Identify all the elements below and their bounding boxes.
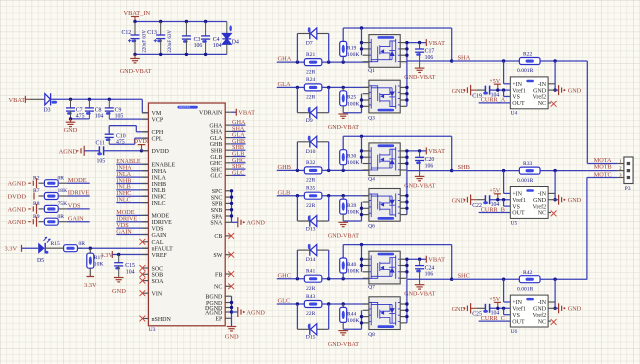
ground GND-VBAT bbox=[338, 221, 348, 223]
resistor R25 100K bbox=[342, 87, 344, 90]
resistor R33 0.001R bbox=[519, 167, 540, 174]
svg-text:SNA: SNA bbox=[210, 221, 223, 227]
svg-text:0.001R: 0.001R bbox=[517, 68, 534, 74]
wire SHA bbox=[452, 60, 588, 62]
pin bbox=[363, 169, 369, 171]
net label SHC bbox=[232, 168, 246, 170]
svg-text:D14: D14 bbox=[306, 257, 316, 263]
no connect NC bbox=[548, 212, 551, 214]
pin INHC bbox=[142, 195, 148, 197]
pin bbox=[363, 322, 369, 324]
svg-text:VDRAIN: VDRAIN bbox=[199, 111, 223, 117]
pin bbox=[400, 163, 407, 165]
pin CPL bbox=[142, 137, 148, 139]
junction bbox=[450, 59, 453, 62]
wire bbox=[112, 254, 148, 256]
svg-text:Q1: Q1 bbox=[368, 68, 375, 74]
svg-text:GND-VBAT: GND-VBAT bbox=[404, 75, 435, 81]
wire bbox=[25, 98, 29, 100]
pin bbox=[400, 309, 407, 311]
wire to VBAT bbox=[407, 258, 426, 260]
svg-text:105: 105 bbox=[97, 159, 106, 165]
junction bbox=[230, 310, 233, 313]
pin VIN bbox=[142, 292, 148, 294]
pin bbox=[400, 265, 407, 267]
resistor R42 0.001R bbox=[519, 276, 540, 283]
svg-text:C9: C9 bbox=[115, 107, 122, 113]
no connect NC bbox=[548, 320, 551, 322]
ground GND-VBAT bbox=[338, 330, 348, 332]
pin bbox=[363, 54, 369, 56]
wire top rail bbox=[343, 27, 452, 29]
resistor R32 22R bbox=[304, 167, 322, 174]
svg-text:104: 104 bbox=[126, 269, 135, 275]
svg-text:+IN: +IN bbox=[512, 192, 522, 198]
wire VS bbox=[503, 200, 505, 206]
pin GLB bbox=[225, 156, 231, 158]
pin bbox=[363, 42, 369, 44]
pin 1 bbox=[618, 163, 624, 165]
svg-text:100K: 100K bbox=[347, 210, 359, 216]
svg-text:D10: D10 bbox=[306, 149, 316, 155]
pin GLC bbox=[225, 174, 231, 176]
svg-text:AGND: AGND bbox=[59, 148, 78, 155]
pin DGND bbox=[225, 307, 231, 309]
junction bbox=[296, 194, 299, 197]
wire SHA bbox=[407, 60, 452, 62]
ground GND-VBAT bbox=[338, 113, 348, 115]
junction bbox=[230, 214, 233, 217]
svg-text:R35: R35 bbox=[306, 186, 316, 192]
pin bbox=[363, 303, 369, 305]
junction bbox=[450, 169, 453, 172]
resistor R9 0R bbox=[39, 221, 44, 223]
svg-text:D15: D15 bbox=[306, 335, 316, 341]
junction bbox=[296, 302, 299, 305]
wire bbox=[85, 150, 100, 152]
svg-text:VDS: VDS bbox=[152, 226, 164, 232]
pin bbox=[363, 195, 369, 197]
svg-text:75K: 75K bbox=[58, 201, 68, 207]
wire MOTA bbox=[586, 61, 588, 164]
pin BGND bbox=[225, 295, 231, 297]
wire -IN bbox=[554, 171, 556, 200]
junction bbox=[296, 169, 299, 172]
svg-text:GND: GND bbox=[568, 197, 582, 204]
junction bbox=[230, 195, 233, 198]
pin VREF bbox=[142, 254, 148, 256]
pin bbox=[363, 93, 369, 95]
resistor R22 0.001R bbox=[519, 58, 540, 65]
wire -IN bbox=[554, 279, 556, 308]
ground GND bbox=[114, 277, 124, 279]
wire source column bbox=[343, 220, 361, 222]
resistor R44 100K bbox=[342, 304, 344, 307]
svg-text:R8: R8 bbox=[33, 201, 40, 207]
pin INLC bbox=[142, 202, 148, 204]
resistor R24 22R bbox=[304, 84, 322, 91]
svg-text:R19: R19 bbox=[347, 45, 357, 51]
svg-text:Q4: Q4 bbox=[368, 176, 375, 182]
svg-text:OUT: OUT bbox=[512, 319, 525, 325]
svg-text:Vref1: Vref1 bbox=[512, 197, 526, 204]
svg-text:R24: R24 bbox=[306, 77, 316, 83]
svg-text:C17: C17 bbox=[425, 49, 435, 55]
wire to VM pin bbox=[141, 99, 143, 113]
svg-text:C24: C24 bbox=[425, 265, 435, 271]
capacitor C17 106 bbox=[419, 43, 421, 49]
resistor R2 0R bbox=[39, 182, 44, 184]
resistor R30 100K bbox=[342, 136, 344, 149]
pin INLA bbox=[142, 176, 148, 178]
svg-text:22R: 22R bbox=[306, 203, 316, 209]
junction bbox=[296, 277, 299, 280]
wire Vref1 bbox=[489, 199, 510, 201]
svg-text:0.001R: 0.001R bbox=[517, 178, 534, 184]
pin bbox=[363, 207, 369, 209]
net label GHA bbox=[232, 124, 246, 126]
pin bbox=[400, 201, 407, 203]
svg-text:Q6: Q6 bbox=[368, 224, 375, 230]
svg-text:VBAT: VBAT bbox=[238, 110, 255, 117]
svg-text:Vref2: Vref2 bbox=[532, 203, 546, 210]
junction bbox=[553, 307, 556, 310]
svg-text:106: 106 bbox=[194, 43, 203, 49]
svg-text:GND: GND bbox=[225, 334, 239, 341]
wire to VBAT bbox=[407, 150, 426, 152]
svg-text:GND-VBAT: GND-VBAT bbox=[328, 234, 359, 240]
svg-text:0R: 0R bbox=[58, 175, 65, 181]
ground GND bbox=[70, 119, 72, 122]
svg-text:220uF 63V: 220uF 63V bbox=[168, 30, 173, 53]
resistor R43 22R bbox=[304, 301, 322, 308]
power port AGND bbox=[232, 311, 238, 313]
svg-text:Q7: Q7 bbox=[368, 285, 375, 291]
pin CPH bbox=[142, 131, 148, 133]
junction bbox=[496, 198, 499, 201]
pin EP bbox=[225, 317, 231, 319]
wire GND pin bbox=[548, 199, 555, 201]
wire +IN bbox=[503, 171, 505, 194]
wire drain column bbox=[406, 151, 408, 170]
svg-text:VS: VS bbox=[512, 95, 520, 101]
pin bbox=[363, 99, 369, 101]
svg-text:C4: C4 bbox=[213, 37, 220, 43]
pin bbox=[400, 61, 407, 63]
svg-text:R9: R9 bbox=[33, 214, 40, 220]
svg-text:GLA: GLA bbox=[210, 136, 223, 142]
pin 3 bbox=[618, 177, 624, 179]
net label SHA bbox=[232, 130, 246, 132]
pin SPC bbox=[225, 190, 231, 192]
svg-text:-IN: -IN bbox=[538, 82, 547, 88]
svg-text:100K: 100K bbox=[347, 160, 359, 166]
resistor R39 100K bbox=[342, 196, 344, 199]
svg-text:AGND: AGND bbox=[246, 220, 265, 227]
svg-text:Vref1: Vref1 bbox=[512, 306, 526, 313]
net label SHB bbox=[232, 149, 246, 151]
svg-text:22R: 22R bbox=[306, 311, 316, 317]
capacitor C12 bbox=[134, 22, 136, 36]
connector P3 bbox=[624, 157, 633, 184]
svg-text:SNC: SNC bbox=[211, 195, 223, 201]
resistor R17 10K bbox=[89, 248, 91, 253]
pin AGND bbox=[225, 311, 231, 313]
svg-text:104: 104 bbox=[95, 114, 104, 120]
svg-text:CPH: CPH bbox=[152, 130, 164, 136]
pin SHB bbox=[225, 149, 231, 151]
svg-text:AGND: AGND bbox=[8, 219, 27, 226]
svg-text:INLB: INLB bbox=[152, 188, 166, 194]
op-amp U5 bbox=[510, 187, 548, 219]
svg-text:C8: C8 bbox=[95, 107, 102, 113]
svg-text:GND-VBAT: GND-VBAT bbox=[404, 183, 435, 189]
svg-text:MOTC: MOTC bbox=[594, 171, 612, 178]
resistor R21 22R bbox=[304, 59, 322, 66]
svg-text:GHB: GHB bbox=[210, 142, 223, 148]
pin bbox=[363, 214, 369, 216]
IC U3 DRV8305 bbox=[148, 103, 225, 326]
wire GND pin bbox=[548, 307, 555, 309]
pin SNC bbox=[225, 196, 231, 198]
svg-text:C15: C15 bbox=[125, 263, 135, 269]
junction bbox=[296, 86, 299, 89]
pin INLB bbox=[142, 189, 148, 191]
pin GHA bbox=[225, 124, 231, 126]
junction bbox=[230, 306, 233, 309]
capacitor C19 104 bbox=[484, 86, 486, 95]
wire top rail bbox=[343, 135, 452, 137]
svg-text:106: 106 bbox=[425, 163, 434, 169]
svg-text:C10: C10 bbox=[116, 133, 126, 139]
svg-text:INHB: INHB bbox=[152, 182, 167, 188]
resistor R15 0R bbox=[45, 247, 63, 249]
svg-text:SHC: SHC bbox=[211, 167, 223, 173]
svg-text:MODE: MODE bbox=[152, 214, 170, 220]
svg-text:SOB: SOB bbox=[152, 273, 164, 279]
wire SHB bbox=[452, 170, 588, 172]
pin DVDD bbox=[142, 150, 148, 152]
pin GHB bbox=[225, 143, 231, 145]
junction bbox=[360, 135, 363, 138]
svg-text:Vref2: Vref2 bbox=[532, 312, 546, 319]
svg-text:NC: NC bbox=[214, 285, 222, 291]
svg-text:22R: 22R bbox=[306, 69, 316, 75]
pin ENABLE bbox=[142, 163, 148, 165]
wire bbox=[22, 247, 39, 249]
pin nFAULT bbox=[142, 247, 148, 249]
svg-text:GLC: GLC bbox=[232, 169, 244, 176]
pin FB bbox=[225, 273, 231, 275]
pin SHA bbox=[225, 130, 231, 132]
svg-text:GAIN: GAIN bbox=[152, 233, 168, 239]
svg-text:DVDD: DVDD bbox=[8, 193, 27, 200]
svg-text:AGND: AGND bbox=[8, 181, 27, 188]
svg-text:D9: D9 bbox=[306, 118, 313, 124]
svg-text:VCP: VCP bbox=[152, 117, 164, 123]
resistor R41 22R bbox=[304, 275, 322, 282]
svg-text:C7: C7 bbox=[76, 107, 83, 113]
junction bbox=[69, 117, 72, 120]
svg-text:100K: 100K bbox=[347, 269, 359, 275]
wire drain column bbox=[406, 171, 408, 215]
svg-text:VS: VS bbox=[512, 204, 520, 210]
svg-text:GND: GND bbox=[568, 87, 582, 94]
svg-text:R41: R41 bbox=[306, 269, 316, 275]
no connect NC bbox=[548, 102, 551, 104]
svg-text:U3: U3 bbox=[149, 327, 156, 333]
svg-text:SNB: SNB bbox=[211, 208, 223, 214]
svg-text:nSHDN: nSHDN bbox=[152, 317, 172, 323]
svg-text:P3: P3 bbox=[625, 186, 631, 192]
svg-text:-IN: -IN bbox=[538, 300, 547, 306]
pin nSHDN bbox=[142, 318, 148, 320]
svg-text:SW: SW bbox=[213, 253, 222, 259]
svg-text:100K: 100K bbox=[347, 318, 359, 324]
pin bbox=[400, 322, 407, 324]
power port 3.3V bbox=[87, 276, 95, 278]
resistor R35 22R bbox=[304, 192, 322, 199]
pin bbox=[400, 258, 407, 260]
power port GND bbox=[558, 303, 560, 313]
pin bbox=[400, 156, 407, 158]
svg-text:VIN: VIN bbox=[152, 292, 163, 298]
svg-text:D13: D13 bbox=[306, 226, 316, 232]
resistor R8 75K bbox=[39, 208, 44, 210]
wire top rail bbox=[135, 21, 227, 23]
svg-text:SHB: SHB bbox=[211, 149, 223, 155]
svg-text:U6: U6 bbox=[511, 329, 518, 335]
pin SNA bbox=[225, 221, 231, 223]
svg-text:475: 475 bbox=[116, 140, 125, 146]
pin bbox=[363, 271, 369, 273]
svg-text:SHC: SHC bbox=[458, 273, 470, 280]
svg-text:C13: C13 bbox=[147, 30, 157, 36]
svg-text:R44: R44 bbox=[347, 311, 357, 317]
capacitor C4 bbox=[205, 22, 207, 36]
svg-text:100K: 100K bbox=[347, 101, 359, 107]
svg-text:VBAT: VBAT bbox=[9, 97, 26, 104]
svg-text:D4: D4 bbox=[232, 40, 239, 46]
pin VDRAIN bbox=[225, 111, 231, 113]
power port AGND bbox=[232, 221, 238, 223]
svg-text:VBAT: VBAT bbox=[428, 148, 445, 155]
svg-text:22R: 22R bbox=[306, 286, 316, 292]
pin bbox=[363, 156, 369, 158]
junction bbox=[502, 169, 505, 172]
pin bbox=[400, 99, 407, 101]
ground GND-VBAT bbox=[415, 284, 425, 286]
svg-text:+IN: +IN bbox=[512, 82, 522, 88]
svg-text:VS: VS bbox=[512, 313, 520, 319]
pin bbox=[400, 214, 407, 216]
junction bbox=[553, 88, 556, 91]
svg-text:AGND: AGND bbox=[246, 309, 265, 316]
capacitor C9 bbox=[108, 99, 110, 108]
svg-text:DVDD: DVDD bbox=[152, 149, 170, 155]
pin SHC bbox=[225, 168, 231, 170]
pin GAIN bbox=[142, 234, 148, 236]
wire drain column bbox=[406, 279, 408, 323]
power port GND bbox=[558, 85, 560, 95]
svg-text:GND: GND bbox=[533, 307, 547, 313]
wire -IN bbox=[554, 61, 556, 90]
junction bbox=[496, 88, 499, 91]
wire GND pin bbox=[548, 89, 555, 91]
svg-text:R22: R22 bbox=[523, 52, 533, 58]
svg-text:R2: R2 bbox=[33, 175, 40, 181]
resistor R19 100K bbox=[342, 28, 344, 41]
capacitor C22 104 bbox=[484, 195, 486, 204]
wire bbox=[71, 118, 90, 120]
svg-text:D5: D5 bbox=[37, 258, 44, 264]
wire C9 to VCP pin bbox=[109, 118, 148, 120]
capacitor C15 bbox=[118, 255, 120, 263]
svg-text:IDRIVE: IDRIVE bbox=[152, 220, 173, 226]
wire +IN bbox=[503, 279, 505, 302]
pin SOC bbox=[142, 267, 148, 269]
svg-text:106: 106 bbox=[425, 272, 434, 278]
wire source column bbox=[343, 328, 361, 330]
wire MOTC bbox=[586, 178, 588, 280]
pin bbox=[400, 42, 407, 44]
junction bbox=[230, 301, 233, 304]
svg-text:0.001R: 0.001R bbox=[517, 286, 534, 292]
net label GHC bbox=[232, 162, 246, 164]
transistor Q1 bbox=[369, 35, 400, 68]
svg-text:U5: U5 bbox=[511, 220, 518, 226]
svg-text:GND-VBAT: GND-VBAT bbox=[328, 342, 359, 348]
pin bbox=[400, 169, 407, 171]
wire Vref1 bbox=[489, 89, 510, 91]
pin bbox=[363, 277, 369, 279]
junction bbox=[117, 253, 120, 256]
svg-text:EP: EP bbox=[215, 317, 223, 323]
pin bbox=[363, 61, 369, 63]
svg-text:CB: CB bbox=[214, 234, 222, 240]
svg-text:R33: R33 bbox=[523, 161, 533, 167]
pin CAL bbox=[142, 241, 148, 243]
wire SHC bbox=[452, 278, 588, 280]
junction bbox=[89, 247, 92, 250]
pin bbox=[363, 201, 369, 203]
svg-text:INHC: INHC bbox=[152, 195, 167, 201]
svg-text:INLC: INLC bbox=[152, 201, 166, 207]
diode D10 bbox=[296, 142, 298, 171]
junction bbox=[502, 59, 505, 62]
svg-text:ENABLE: ENABLE bbox=[152, 163, 176, 169]
wire drain column bbox=[406, 259, 408, 278]
svg-text:10K: 10K bbox=[94, 261, 104, 267]
wire SHC bbox=[407, 278, 452, 280]
svg-text:C3: C3 bbox=[194, 37, 201, 43]
junction bbox=[140, 149, 143, 152]
wire source column bbox=[343, 112, 361, 114]
transistor Q6 bbox=[369, 189, 400, 222]
svg-text:DRV8305: DRV8305 bbox=[179, 106, 191, 109]
pin bbox=[363, 316, 369, 318]
capacitor C10 bbox=[108, 126, 110, 135]
pin INHB bbox=[142, 183, 148, 185]
svg-text:100K: 100K bbox=[347, 52, 359, 58]
power port GND bbox=[558, 195, 560, 205]
junction bbox=[133, 20, 136, 23]
svg-text:R15: R15 bbox=[51, 241, 61, 247]
pin bbox=[363, 48, 369, 50]
power port VBAT bbox=[425, 39, 427, 46]
svg-text:SPA: SPA bbox=[212, 214, 223, 220]
wire bbox=[51, 98, 143, 100]
